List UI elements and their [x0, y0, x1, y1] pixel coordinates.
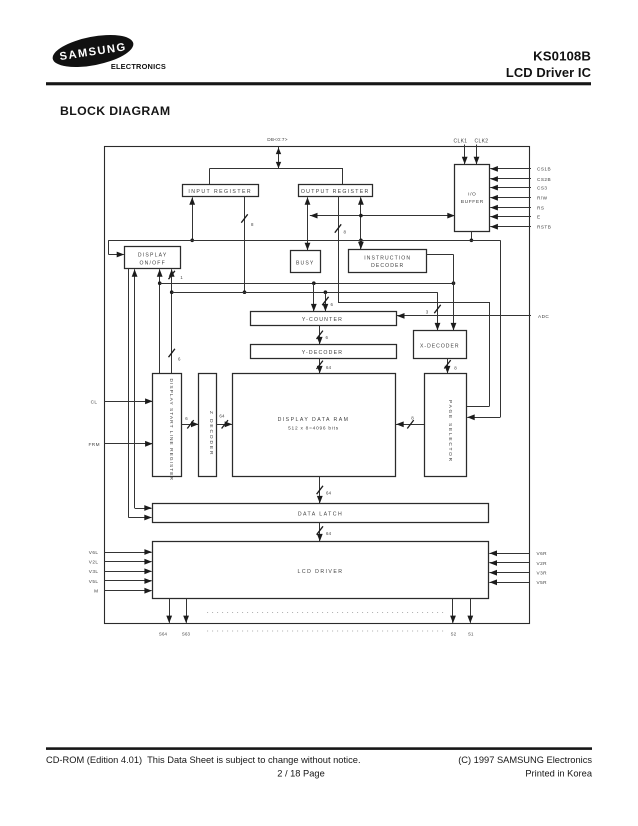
svg-text:CS2B: CS2B — [537, 177, 551, 182]
block INSTRUCTION DECODER — [349, 250, 427, 273]
wire control input E — [490, 216, 531, 218]
wire segment output S64 — [169, 599, 171, 623]
wire segment output S1 — [470, 599, 472, 623]
svg-text:DISPLAY START LINE REGISTER: DISPLAY START LINE REGISTER — [168, 379, 174, 482]
svg-text:S1: S1 — [468, 632, 474, 637]
svg-text:RSTB: RSTB — [537, 225, 551, 230]
block DISPLAY ON/OFF — [125, 247, 181, 269]
wire Y-counter to Y-decoder, 6-bit slash — [319, 326, 321, 345]
svg-text:512 x 8=4096 bits: 512 x 8=4096 bits — [288, 426, 339, 432]
svg-text:DECODER: DECODER — [371, 263, 404, 269]
svg-text:LCD Driver IC: LCD Driver IC — [506, 65, 591, 80]
svg-text:CL: CL — [91, 399, 98, 404]
svg-text:I/O: I/O — [468, 191, 476, 197]
svg-text:S64: S64 — [159, 632, 168, 637]
wire control input CS3 — [490, 187, 531, 189]
svg-text:2 / 18 Page: 2 / 18 Page — [277, 769, 325, 779]
wire DB bus vertical double arrow — [278, 147, 280, 169]
block I/O BUFFER U-IO — [455, 165, 490, 232]
wire DB bus to registers — [210, 168, 344, 170]
svg-text:6: 6 — [326, 335, 329, 340]
wire control input RS — [490, 207, 531, 209]
svg-text:(C) 1997 SAMSUNG Electronics: (C) 1997 SAMSUNG Electronics — [458, 755, 592, 765]
block PAGE SELECTOR — [425, 374, 467, 477]
wire segment output S63 — [186, 599, 188, 623]
svg-text:8: 8 — [454, 366, 457, 371]
wire X-decoder to page selector, 8-bit slash — [447, 359, 449, 374]
svg-text:ELECTRONICS: ELECTRONICS — [111, 62, 166, 71]
wire display on/off from bus A (up arrow, down to DSL register) — [159, 269, 161, 374]
wire output register to page selector, 8-bit slash — [338, 197, 340, 303]
wire LCD bias input V2R — [489, 562, 529, 564]
wire LCD bias input V5R — [489, 582, 529, 584]
dotted continuation row lower — [207, 630, 446, 632]
svg-text:V6R: V6R — [537, 551, 548, 556]
svg-text:OUTPUT REGISTER: OUTPUT REGISTER — [301, 189, 370, 195]
samsung logo ellipse — [50, 29, 136, 73]
wire DSL register to Z decoder, 6-bit slash — [182, 424, 199, 426]
svg-text:X-DECODER: X-DECODER — [420, 343, 460, 349]
block DATA LATCH — [153, 504, 489, 523]
svg-text:CLK1: CLK1 — [454, 138, 468, 144]
block Z DECODER — [199, 374, 217, 477]
svg-text:ON/OFF: ON/OFF — [139, 260, 165, 266]
wire CLK2 into I/O buffer — [476, 145, 478, 165]
svg-text:BLOCK DIAGRAM: BLOCK DIAGRAM — [60, 104, 170, 118]
svg-text:RS: RS — [537, 205, 544, 210]
svg-text:INSTRUCTION: INSTRUCTION — [364, 255, 411, 261]
svg-text:6: 6 — [331, 302, 334, 307]
svg-text:Y-DECODER: Y-DECODER — [302, 350, 343, 356]
wire LCD bias input V2L — [104, 561, 152, 563]
svg-text:INPUT REGISTER: INPUT REGISTER — [188, 189, 252, 195]
footer rule — [46, 747, 592, 750]
wire output register / instruction decoder vertical — [360, 197, 362, 249]
svg-text:CD-ROM (Edition 4.01) This Da: CD-ROM (Edition 4.01) This Data Sheet is… — [46, 755, 361, 765]
wire LCD bias input M — [104, 590, 152, 592]
svg-text:CS3: CS3 — [537, 185, 547, 190]
wire control input CS1B — [490, 168, 531, 170]
wire instruction decoder to X-decoder — [427, 254, 454, 256]
svg-text:8: 8 — [344, 230, 347, 235]
wire horizontal bus lower — [172, 292, 438, 294]
svg-text:6: 6 — [178, 357, 181, 362]
svg-text:V3R: V3R — [537, 571, 548, 576]
svg-text:8: 8 — [411, 416, 414, 421]
svg-text:ADC: ADC — [538, 314, 549, 319]
wire bus into Y-counter with 6-bit slash — [325, 292, 327, 311]
svg-text:3: 3 — [426, 310, 429, 315]
wire internal bus to I/O buffer double arrow — [310, 215, 455, 217]
svg-text:V6L: V6L — [89, 550, 99, 555]
svg-text:DATA LATCH: DATA LATCH — [298, 511, 343, 517]
wire I/O buffer internal bus — [471, 232, 473, 241]
svg-text:1: 1 — [180, 275, 183, 280]
wire Y-decoder to display data RAM, 64-bit slash — [319, 359, 321, 374]
svg-text:V3L: V3L — [89, 569, 99, 574]
wire input register load (up arrow from bus) — [192, 197, 194, 240]
block BUSY flag — [291, 251, 321, 273]
svg-text:Z DECODER: Z DECODER — [208, 411, 214, 456]
svg-text:S2: S2 — [451, 632, 457, 637]
svg-text:Y-COUNTER: Y-COUNTER — [302, 317, 343, 323]
svg-text:V2L: V2L — [89, 560, 99, 565]
svg-text:M: M — [94, 589, 98, 594]
wire input register data out, 8-bit slash — [244, 197, 246, 293]
svg-text:BUFFER: BUFFER — [461, 199, 484, 205]
svg-text:V5L: V5L — [89, 579, 99, 584]
diagram outer frame — [105, 147, 530, 624]
wire data latch to LCD driver, 64-bit slash — [319, 522, 321, 541]
wire segment output S2 — [452, 599, 454, 623]
svg-text:8: 8 — [251, 222, 254, 227]
svg-text:64: 64 — [219, 414, 225, 419]
svg-text:LCD DRIVER: LCD DRIVER — [298, 569, 344, 575]
svg-text:64: 64 — [326, 365, 332, 370]
svg-text:Printed in Korea: Printed in Korea — [525, 769, 592, 779]
wire control input CS2B — [490, 178, 531, 180]
wire display on/off from bus B with 1-bit slash, 6-bit slash to DSL register — [171, 269, 173, 374]
svg-text:FRM: FRM — [88, 442, 100, 447]
svg-text:V2R: V2R — [537, 561, 548, 566]
wire LCD bias input V5L — [104, 580, 152, 582]
wire display on/off output to data latch (outer) — [128, 269, 130, 518]
wire horizontal bus upper (to Y-counter / X-decoder line) — [160, 283, 454, 285]
svg-text:S63: S63 — [182, 632, 191, 637]
wire to X-decoder with 3-bit slash — [437, 292, 439, 330]
wire control input RSTB — [490, 226, 531, 228]
wire busy to output register double arrow — [307, 197, 309, 250]
block OUTPUT REGISTER — [299, 185, 373, 197]
wire Z decoder to display data RAM, 64-bit slash — [217, 424, 232, 426]
svg-text:PAGE SELECTOR: PAGE SELECTOR — [447, 400, 453, 463]
wire control input R/W — [490, 197, 531, 199]
wire data latch to display on/off (inner, up arrow) — [134, 269, 136, 508]
wire LCD bias input V3R — [489, 572, 529, 574]
wire bus into Y-counter (plain) — [313, 283, 315, 311]
svg-text:DB<0:7>: DB<0:7> — [267, 137, 288, 142]
wire LCD bias input V6R — [489, 553, 529, 555]
wire CLK1 into I/O buffer — [464, 145, 466, 165]
block INPUT REGISTER — [183, 185, 259, 197]
svg-text:CS1B: CS1B — [537, 167, 551, 172]
block DISPLAY DATA RAM — [233, 374, 396, 477]
svg-text:R/W: R/W — [537, 196, 548, 201]
wire page selector to display data RAM, 8-bit slash — [396, 424, 424, 426]
wire FRM input — [104, 443, 152, 445]
svg-text:64: 64 — [326, 491, 332, 496]
svg-text:V5R: V5R — [537, 580, 548, 585]
wire LCD bias input V6L — [104, 552, 152, 554]
block LCD DRIVER — [153, 542, 489, 599]
svg-text:KS0108B: KS0108B — [533, 48, 591, 63]
dotted continuation row upper — [207, 612, 446, 614]
block X-DECODER — [414, 331, 467, 359]
wire ADC input to Y-counter — [397, 315, 531, 317]
svg-text:BUSY: BUSY — [296, 260, 314, 266]
header rule — [46, 82, 591, 85]
block Y-COUNTER — [251, 312, 397, 326]
wire LCD bias input V3L — [104, 571, 152, 573]
svg-text:DISPLAY DATA RAM: DISPLAY DATA RAM — [278, 417, 350, 423]
svg-text:6: 6 — [185, 416, 188, 421]
block Y-DECODER — [251, 345, 397, 359]
wire CL input — [104, 401, 152, 403]
wire display data RAM to data latch, 64-bit slash — [319, 477, 321, 503]
svg-text:64: 64 — [326, 531, 332, 536]
svg-text:E: E — [537, 215, 541, 220]
block DISPLAY START LINE REGISTER — [153, 374, 182, 477]
svg-text:DISPLAY: DISPLAY — [138, 253, 168, 259]
svg-text:CLK2: CLK2 — [475, 138, 489, 144]
